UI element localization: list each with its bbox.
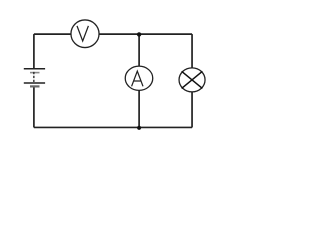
- ammeter A1: [125, 66, 153, 90]
- short plate cell 2: [30, 85, 40, 87]
- wire middle branch (ammeter branch): [138, 34, 140, 127]
- node junction bottom (ammeter branch to bottom wire): [137, 126, 141, 130]
- wire right branch (lamp branch): [191, 34, 193, 127]
- wire bottom (return wire): [34, 126, 192, 128]
- wire top (node between battery +, voltmeter, ammeter branch, lamp branch): [34, 33, 192, 35]
- long plate cell 2: [24, 82, 45, 84]
- long plate cell 1: [24, 68, 45, 70]
- voltmeter V1: [71, 20, 99, 48]
- label A: [132, 71, 143, 86]
- battery B1 (multi-cell with dashed continuation): [24, 69, 45, 87]
- dashed cell continuation: [33, 72, 35, 83]
- short plate cell 1: [30, 72, 40, 74]
- label V: [77, 26, 88, 41]
- wire left lower (battery - to bottom-left corner): [33, 86, 35, 127]
- lamp L1: [179, 68, 205, 92]
- node junction top (ammeter branch to top wire): [137, 32, 141, 36]
- wire left upper (battery + to top-left corner): [33, 34, 35, 69]
